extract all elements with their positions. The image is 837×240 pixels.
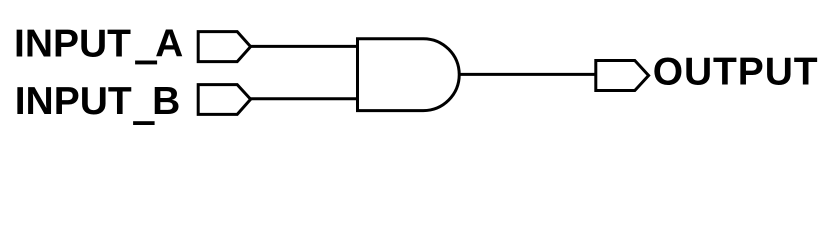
svg-text:OUTPUT: OUTPUT <box>653 51 819 94</box>
underscore of INPUT_A <box>135 61 157 65</box>
output port OUTPUT <box>596 61 649 91</box>
wire OUT <box>459 73 596 76</box>
svg-text:INPUT_B: INPUT_B <box>15 80 181 123</box>
wire A <box>250 45 358 48</box>
wire B <box>250 97 358 100</box>
underscore of INPUT_B <box>133 121 155 125</box>
AND gate U1 <box>358 39 460 111</box>
input port INPUT_A <box>198 32 250 62</box>
input port INPUT_B <box>198 85 250 115</box>
svg-text:INPUT_A: INPUT_A <box>14 23 183 66</box>
